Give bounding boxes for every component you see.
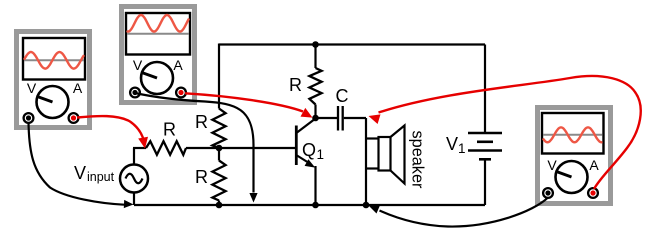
node speaker-ground junction [363,202,370,209]
probe lead red M2 to collector node [185,93,303,111]
node collector [312,115,319,122]
meter M1 display [23,38,85,80]
meter M2 selector dial [141,62,173,94]
resistor R divider upper [212,109,225,149]
meter M1 waveform trace [25,52,84,69]
meter M2 display zero line [127,33,189,35]
probe lead red M3 to speaker node [379,76,641,189]
meter M1 selector dial [37,86,69,118]
node base divider junction [216,145,223,152]
wire base lead [186,147,296,149]
svg-text:A: A [173,57,183,73]
wire collector to capacitor [316,117,338,119]
wire divider bottom [218,201,220,206]
svg-text:R: R [163,120,176,140]
wire capacitor to speaker branch [344,117,366,119]
svg-text:C: C [336,86,349,106]
meter M3 black jack [543,188,553,198]
svg-text:A: A [589,157,599,173]
meter M1 display zero line [24,59,84,61]
source Vinput AC symbol [120,165,148,193]
svg-text:R: R [289,75,302,95]
wire left rail upper (to divider) [218,44,220,109]
wire speaker branch vertical [365,118,367,205]
wire speaker stub bottom [366,167,379,169]
resistor R collector load [309,68,321,105]
meter M3 display [542,113,604,154]
meter M3 waveform trace [544,127,602,142]
wire ground rail (bottom) [134,204,485,206]
meter M3 red jack [588,188,598,198]
wire divider mid lower [218,148,220,161]
svg-text:input: input [87,170,115,184]
meter M3 case [538,108,611,204]
meter M1 black jack [24,113,34,123]
meter M2 waveform trace [128,15,189,31]
wire input to series resistor [133,147,146,149]
meter M2 display [126,13,190,55]
wire battery bottom lead [484,159,486,205]
node divider-ground junction [216,202,223,209]
capacitor C [337,106,339,131]
probe lead black M3 to speaker-ground node [380,198,549,227]
probe lead black M1 to ground rail [29,122,125,205]
meter M2 dial pointer [143,73,157,78]
svg-text:1: 1 [458,141,466,156]
svg-text:V: V [74,163,86,183]
svg-text:A: A [73,80,83,96]
meter M2 black jack [130,88,140,98]
meter M1 dial pointer [38,97,52,102]
wire emitter to ground rail [314,166,316,205]
meter M3 display zero line [543,134,603,136]
speaker SP1 [379,137,391,171]
svg-text:Q: Q [302,140,316,160]
node top rail collector branch [312,41,319,48]
meter M2 case [122,7,195,103]
meter M1 red jack [69,113,79,123]
svg-text:V: V [27,80,37,96]
wire speaker stub top [366,137,379,139]
svg-text:V: V [133,57,143,73]
svg-text:V: V [446,134,458,154]
wire top rail [219,43,485,45]
meter M3 dial pointer [557,172,571,177]
svg-text:R: R [195,112,208,132]
wire battery top lead [484,45,486,134]
meter M1 case [17,32,90,128]
wire Vinput bottom [133,193,135,206]
transistor Q1 [295,126,298,166]
svg-text:R: R [195,167,208,187]
probe lead red M1 to Vinput node [77,116,144,140]
battery V1 plates [468,132,502,135]
node emitter-ground junction [312,202,319,209]
probe lead black M2 to ground rail [135,93,254,193]
wire collector branch upper [314,45,316,69]
meter M3 selector dial [556,161,588,193]
meter M2 red jack [176,88,186,98]
resistor R divider lower [212,161,225,201]
svg-text:speaker: speaker [409,131,427,190]
wire Vinput top [133,148,135,165]
wire collector branch lower [314,105,316,119]
svg-text:1: 1 [317,147,325,162]
resistor R input series [146,141,186,155]
